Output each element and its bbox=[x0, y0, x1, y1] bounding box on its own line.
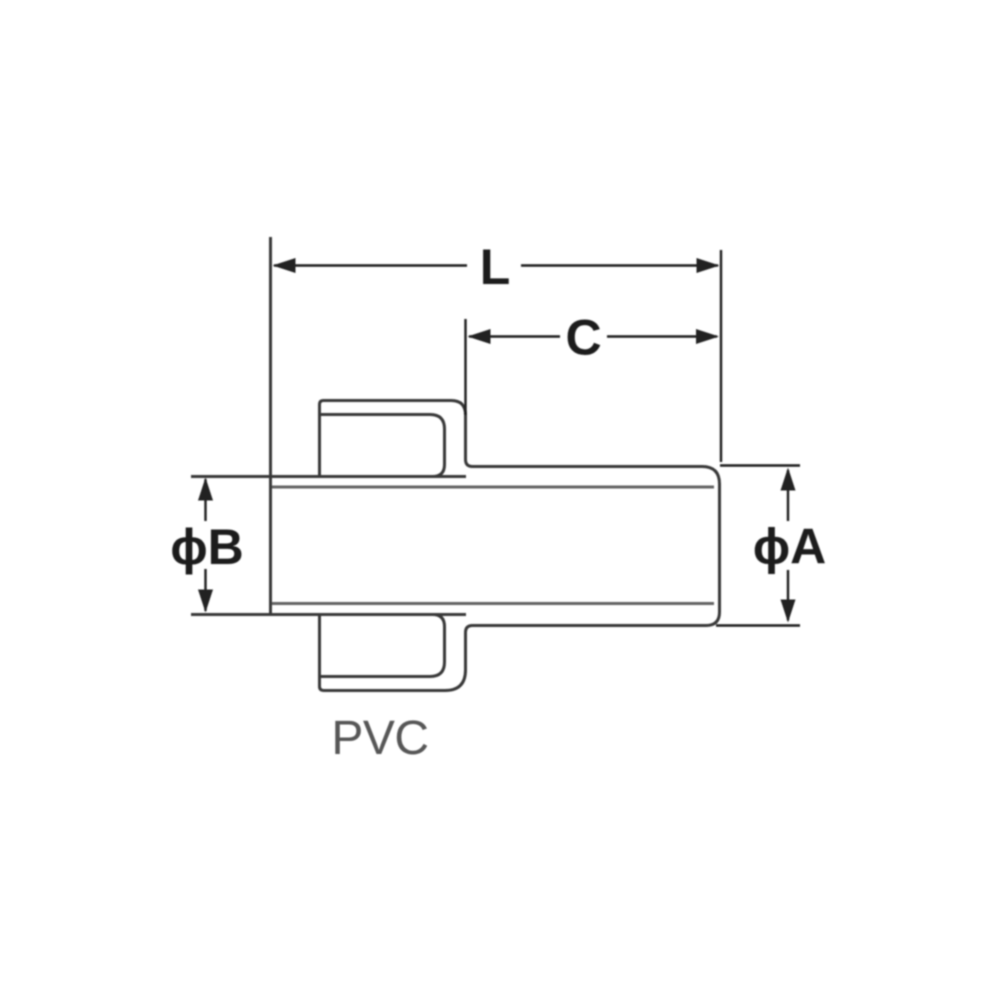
svg-text:ϕA: ϕA bbox=[753, 518, 827, 574]
svg-text:L: L bbox=[480, 239, 511, 295]
svg-text:ϕB: ϕB bbox=[170, 519, 244, 575]
svg-text:C: C bbox=[565, 309, 601, 365]
svg-text:PVC: PVC bbox=[331, 712, 428, 765]
